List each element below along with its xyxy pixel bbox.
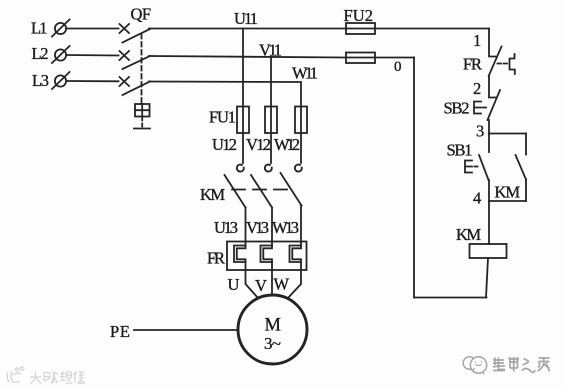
svg-text:W11: W11 [292,64,318,83]
svg-text:U: U [228,275,240,294]
svg-text:L2: L2 [32,44,49,63]
svg-text:L3: L3 [32,71,49,90]
svg-text:V: V [255,276,267,295]
svg-text:KM: KM [456,225,481,244]
svg-text:2: 2 [473,79,481,98]
svg-text:M: M [265,316,281,336]
svg-text:1: 1 [473,31,481,50]
svg-text:KM: KM [200,185,225,204]
svg-text:0: 0 [394,59,402,75]
svg-text:V12: V12 [246,135,271,154]
svg-text:V11: V11 [259,41,282,60]
svg-text:FR: FR [463,55,482,74]
svg-text:W13: W13 [272,218,299,237]
svg-text:U12: U12 [212,135,237,154]
svg-text:U11: U11 [234,9,258,28]
svg-text:V13: V13 [246,218,269,237]
svg-text:QF: QF [131,5,152,24]
svg-text:FR: FR [207,249,225,268]
svg-text:3~: 3~ [264,334,281,353]
svg-text:W12: W12 [274,135,300,154]
svg-text:SB2: SB2 [444,99,470,118]
svg-text:FU2: FU2 [344,6,374,25]
svg-text:4: 4 [473,189,481,208]
svg-text:SB1: SB1 [447,141,473,160]
svg-text:3: 3 [476,122,484,141]
svg-text:KM: KM [495,183,521,202]
svg-text:PE: PE [110,322,130,341]
svg-text:W: W [274,275,290,294]
svg-text:FU1: FU1 [209,108,236,127]
svg-text:U13: U13 [214,218,238,237]
svg-text:L1: L1 [31,18,48,37]
